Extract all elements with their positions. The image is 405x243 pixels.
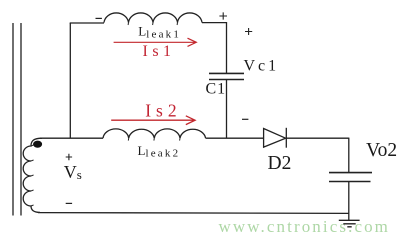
Lleak1 cusp ticks bbox=[128, 23, 177, 25]
wire: top rail left of Lleak1 bbox=[70, 22, 104, 24]
wire: mid rail from Lleak2 to diode bbox=[206, 137, 264, 139]
output capacitor top plate bbox=[329, 172, 372, 174]
wire: top rail right of Lleak1 bbox=[202, 22, 227, 24]
svg-text:C1: C1 bbox=[206, 80, 227, 97]
svg-text:D2: D2 bbox=[268, 153, 292, 174]
diode D2 cathode bar bbox=[285, 128, 287, 148]
minus sign at Lleak1 left bbox=[96, 17, 102, 19]
wire: diode cathode to output node bbox=[286, 137, 349, 139]
inductor Lleak2 bbox=[103, 129, 206, 138]
svg-text:www.cntronics.com: www.cntronics.com bbox=[219, 217, 391, 236]
wire: winding top horizontal (to Lleak2 coil) bbox=[40, 137, 103, 139]
diode D2 triangle bbox=[264, 129, 286, 148]
svg-text:Is1: Is1 bbox=[143, 43, 176, 60]
plus sign Vs bbox=[66, 154, 72, 160]
wire: output vertical to cap bbox=[348, 138, 350, 173]
transformer core bar 2 bbox=[20, 23, 22, 216]
wire: cap bottom to ground bbox=[348, 182, 350, 221]
Lleak2 cusp ticks bbox=[128, 138, 180, 140]
plus sign at top rail end bbox=[219, 12, 227, 19]
svg-text:Vo2: Vo2 bbox=[366, 140, 397, 161]
svg-text:Is2: Is2 bbox=[145, 100, 181, 120]
current arrow Is2 bbox=[111, 116, 195, 125]
wire: C1 top vertical bbox=[226, 22, 228, 73]
winding cusp ticks bbox=[31, 145, 34, 206]
minus sign Vs bbox=[66, 202, 72, 204]
minus sign Vc1 bottom bbox=[242, 118, 248, 120]
capacitor C1 bottom plate bbox=[209, 79, 244, 81]
svg-text:Vc1: Vc1 bbox=[244, 57, 280, 74]
plus sign Vc1 bbox=[245, 28, 252, 35]
polarity dot bbox=[33, 141, 42, 148]
ground bbox=[339, 220, 360, 227]
output capacitor bottom plate bbox=[329, 181, 371, 183]
current arrow Is1 bbox=[114, 38, 197, 46]
wire: left vertical branch up to Lleak1 bbox=[69, 23, 71, 138]
secondary winding of transformer bbox=[23, 138, 42, 212]
inductor Lleak1 bbox=[104, 13, 202, 23]
wire: C1 bottom vertical bbox=[226, 80, 228, 139]
capacitor C1 top plate bbox=[209, 72, 244, 74]
wire: bottom rail bbox=[38, 212, 349, 215]
transformer core bar 1 bbox=[12, 23, 14, 216]
